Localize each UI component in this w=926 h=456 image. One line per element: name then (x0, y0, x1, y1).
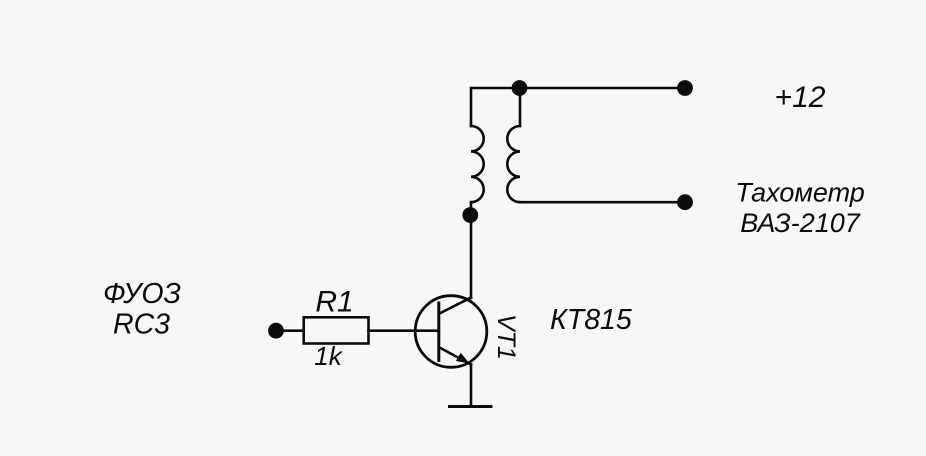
wire top rail (471, 88, 685, 126)
svg-text:R1: R1 (315, 286, 353, 319)
terminal input (268, 323, 284, 339)
wire collector feed (470, 202, 473, 298)
transistor VT1 base bar (437, 303, 440, 361)
wire tachometer output (520, 201, 685, 204)
ground (450, 405, 492, 408)
transistor VT1 emitter stroke (440, 348, 472, 365)
wire L2 top feed (519, 88, 522, 126)
node junction top (512, 80, 528, 96)
transistor VT1 body circle (415, 296, 487, 368)
inductor L1 (primary winding) (471, 126, 484, 202)
inductor L2 (secondary winding) (507, 126, 520, 202)
transistor VT1 emitter arrowhead (456, 353, 470, 364)
transistor VT1 collector stroke (440, 298, 472, 314)
svg-text:1k: 1k (314, 341, 343, 371)
terminal +12 (677, 80, 693, 96)
node coil-collector junction (462, 207, 478, 223)
wire base input (276, 329, 304, 332)
svg-text:+12: +12 (775, 81, 826, 114)
svg-text:КТ815: КТ815 (550, 304, 632, 336)
svg-text:VT1: VT1 (492, 314, 520, 360)
wire resistor to base (369, 329, 439, 332)
svg-text:RC3: RC3 (113, 309, 170, 341)
wire emitter to ground (470, 365, 473, 407)
svg-text:ВАЗ-2107: ВАЗ-2107 (740, 208, 861, 238)
resistor R1 body (304, 317, 369, 343)
terminal tachometer (677, 194, 693, 210)
svg-text:Тахометр: Тахометр (735, 178, 865, 208)
svg-text:ФУОЗ: ФУОЗ (103, 278, 181, 310)
